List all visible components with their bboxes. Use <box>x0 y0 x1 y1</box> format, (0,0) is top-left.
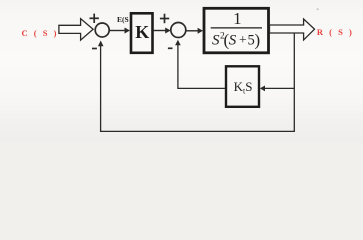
svg-text:1: 1 <box>233 9 242 28</box>
svg-text:K: K <box>135 22 149 42</box>
scan noise speck <box>317 8 319 10</box>
wire S1 to K block <box>110 28 130 34</box>
wire S2 to plant block <box>186 28 203 34</box>
svg-text:C ( S ): C ( S ) <box>22 28 59 38</box>
wire K to summing junction S2 <box>154 28 171 34</box>
outer feedback left wire to S1 <box>98 41 104 133</box>
output block arrow <box>270 19 315 40</box>
svg-text:): ) <box>255 31 261 50</box>
rate feedback block KtS <box>226 66 259 107</box>
label E(S <box>117 15 129 24</box>
wire KtS to S2 <box>175 40 225 89</box>
output label R(S) <box>317 27 354 37</box>
summing junction S1 <box>95 23 109 37</box>
svg-text:+: + <box>239 32 247 47</box>
outer feedback bottom wire <box>101 130 295 132</box>
svg-text:E(S: E(S <box>117 15 129 24</box>
input label C(S) <box>22 28 59 38</box>
svg-text:R ( S ): R ( S ) <box>317 27 354 37</box>
input block arrow <box>59 19 93 40</box>
summing junction S2 <box>171 23 186 38</box>
plus sign at summing junction S1 <box>90 14 99 23</box>
minus sign at summing junction S2 <box>168 47 173 49</box>
svg-text:S: S <box>229 32 237 48</box>
feedback tap vertical wire <box>293 33 295 132</box>
plant block 1/S^2(S+5) <box>204 8 269 53</box>
minus sign at summing junction S1 <box>92 48 97 50</box>
plus sign at summing junction S2 <box>160 14 169 24</box>
svg-text:S: S <box>212 32 220 48</box>
gain block K <box>131 13 153 53</box>
wire tap to KtS block <box>260 86 295 92</box>
